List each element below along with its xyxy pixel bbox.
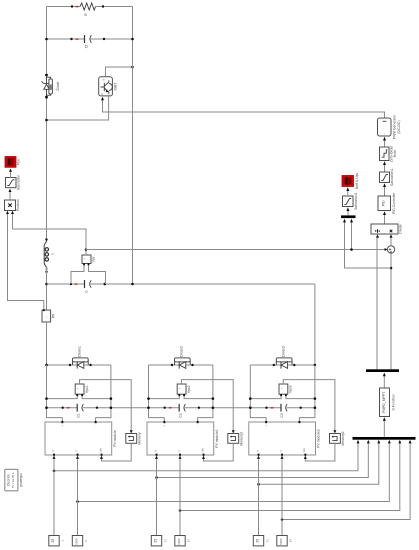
svg-text:Hold: Hold xyxy=(393,150,397,157)
wire Vpv branch to display mux input2 xyxy=(351,222,353,250)
svg-text:Uref & Upv: Uref & Upv xyxy=(355,172,359,189)
saturation block Saturation xyxy=(6,175,21,191)
wire Ipv signal to Product xyxy=(8,213,44,309)
svg-text:1000: 1000 xyxy=(177,538,181,545)
svg-text:1000: 1000 xyxy=(75,538,79,545)
svg-text:Ppv: Ppv xyxy=(17,159,21,165)
voltage measurement Vpv1 xyxy=(75,384,89,396)
wire group1 right rail to module input2 xyxy=(96,365,111,422)
svg-text:Cf: Cf xyxy=(85,45,89,48)
wire Vpv3 sense left xyxy=(250,396,281,398)
wire Vpv3 output to Memory2 xyxy=(283,380,335,431)
constant block 1000 g3 xyxy=(277,536,293,546)
node rail crossings on cap row xyxy=(147,406,150,409)
C3 branch red port tick xyxy=(271,407,274,408)
arrow mux in1 xyxy=(357,440,360,444)
wire Vpv2 output to Memory1 xyxy=(182,380,234,431)
node rail crossings on cap row xyxy=(249,406,252,409)
wire group1 left rail to module input1 xyxy=(47,365,63,422)
arrow into MPPT xyxy=(383,417,386,421)
node Cf right port xyxy=(103,38,105,40)
svg-text:C1: C1 xyxy=(76,413,80,417)
voltage measurement Vpv xyxy=(82,255,96,265)
arrow into module1 Ir xyxy=(155,456,158,459)
arrow mux in3 xyxy=(377,440,380,444)
capacitor C3 plates xyxy=(280,404,287,418)
arrow mux in4 xyxy=(388,440,391,444)
svg-text:PV module1: PV module1 xyxy=(215,429,219,448)
arrow into Memory1 xyxy=(232,430,235,433)
current measurement Ipv xyxy=(42,309,55,322)
wire Vpv1 output to Memory xyxy=(80,380,132,431)
node R left port xyxy=(71,5,73,7)
arrow into module1 T xyxy=(179,456,182,459)
wire Divide to PID xyxy=(384,214,386,224)
svg-text:Vpv2: Vpv2 xyxy=(187,385,191,393)
node below inductor xyxy=(45,271,47,273)
saturation block Saturation2 xyxy=(343,193,359,210)
node group3 right rail on diode row xyxy=(314,364,317,367)
S-function block POPD_MPPT xyxy=(380,388,396,417)
svg-text:PV module: PV module xyxy=(113,430,117,447)
voltage measurement Vpv3 xyxy=(279,384,293,396)
wire big mux to MPPT input xyxy=(383,420,385,437)
svg-text:Saturation1: Saturation1 xyxy=(390,169,394,186)
node sense rail joins xyxy=(147,397,150,400)
svg-text:Vpv3: Vpv3 xyxy=(289,385,293,393)
svg-text:Memory1: Memory1 xyxy=(240,431,244,445)
node T2 tap xyxy=(179,509,182,512)
constant block 25 xyxy=(49,536,65,546)
arrow into module2 Vav xyxy=(304,456,307,459)
wire Ir1 signal to mux in1 xyxy=(54,443,358,470)
capacitor C1 plates xyxy=(76,404,83,418)
node Cf rail / switch-node xyxy=(131,38,134,41)
wire left rail upper xyxy=(46,7,48,75)
capacitor Cf xyxy=(85,35,92,48)
arrow into Memory2 xyxy=(333,430,336,433)
svg-text:-: - xyxy=(299,425,300,428)
svg-text:Ir: Ir xyxy=(154,450,158,452)
node Ir2 tap xyxy=(155,476,158,479)
capacitor C2 plates xyxy=(178,404,185,418)
node group1 left rail on diode row xyxy=(45,364,48,367)
svg-text:Vav: Vav xyxy=(200,447,204,452)
C branch red port tick xyxy=(75,283,78,284)
svg-text:-: - xyxy=(88,260,89,263)
divide block xyxy=(371,224,402,234)
svg-text:IGBT: IGBT xyxy=(114,83,118,91)
svg-text:Divide: Divide xyxy=(398,224,402,234)
wire MPPT output to demux xyxy=(383,376,385,388)
memory block Memory xyxy=(126,432,142,445)
svg-text:›: › xyxy=(384,131,385,135)
wire Vpv signal branch to Product xyxy=(13,213,87,249)
arrow into module2 Ir xyxy=(257,456,260,459)
wire top rail right segment xyxy=(96,6,133,8)
arrow into display mux input2 xyxy=(350,219,353,223)
C1 branch red port tick xyxy=(67,407,70,408)
wire ZOH to PWM xyxy=(384,140,386,147)
sum block Add xyxy=(387,246,394,253)
wire group2 right rail to module input2 xyxy=(198,365,213,422)
wire Ir3 signal to mux in3 xyxy=(259,443,379,484)
product block Product xyxy=(5,199,21,211)
wire series cap row bus xyxy=(47,407,315,409)
svg-text:PID Controller: PID Controller xyxy=(392,192,396,214)
arrow into module Vav xyxy=(100,456,103,459)
arrow into module T xyxy=(76,456,79,459)
svg-text:Ipv: Ipv xyxy=(51,313,55,318)
node Vpv signal branch xyxy=(85,248,88,251)
wire left rail diode to emitter node xyxy=(46,97,48,241)
wire Memory1 output to module Vav input xyxy=(204,443,234,461)
demux bar MPPT outputs xyxy=(366,369,399,372)
wire Vpv sense right to PV+ rail xyxy=(89,265,106,284)
diode Diode3 (bypass) xyxy=(273,346,296,369)
node Ir3 tap xyxy=(257,483,260,486)
node T3 tap xyxy=(281,518,284,521)
PID controller block xyxy=(378,192,396,214)
wire Vpv3 sense right xyxy=(286,396,315,398)
svg-text:Diode3: Diode3 xyxy=(281,346,285,357)
arrow into display mux input1 xyxy=(343,219,346,223)
arrow into module Ir xyxy=(53,456,56,459)
arrow into module2 T xyxy=(281,456,284,459)
svg-text:Diode2: Diode2 xyxy=(180,346,184,357)
wire Uref vertical sum bottom to demux out2 xyxy=(390,253,392,369)
svg-text:Ts = 1e-05 s.: Ts = 1e-05 s. xyxy=(11,472,15,488)
svg-text:Vav: Vav xyxy=(98,447,102,452)
wire Saturation2 to scope xyxy=(347,190,349,196)
node sense rail joins xyxy=(45,397,48,400)
PV module block xyxy=(45,421,117,456)
arrow into scope Uref & Upv xyxy=(346,187,349,191)
scope display Uref & Upv (red) xyxy=(342,172,359,189)
wire Vpv2 sense right xyxy=(184,396,213,398)
arrow mux in2 xyxy=(367,440,370,444)
arrow into demux xyxy=(383,373,386,377)
wire PV+ rail xyxy=(47,284,315,365)
capacitor C xyxy=(85,280,92,293)
node switch-node vertical on PV+ rail xyxy=(131,283,134,286)
memory block Memory1 xyxy=(228,431,244,445)
node collector junction xyxy=(131,66,134,69)
PV module2 block xyxy=(249,421,321,456)
node T1 tap xyxy=(76,500,79,503)
wire Saturation1 to ZOH xyxy=(384,164,386,172)
wire group2 left rail to module input1 xyxy=(149,365,165,422)
svg-text:25: 25 xyxy=(51,539,55,543)
arrow mux in5 xyxy=(398,440,401,444)
arrow mux in6 xyxy=(409,440,412,444)
wire Vpv1 sense left xyxy=(47,396,78,398)
inductor L xyxy=(44,238,54,268)
wire top rail left segment xyxy=(47,6,81,8)
wire Memory output to module Vav input xyxy=(102,443,132,461)
arrow into Divide input 1 xyxy=(376,234,379,238)
arrow into Saturation xyxy=(9,189,12,192)
svg-text:Ir: Ir xyxy=(51,450,55,452)
svg-text:Vpv: Vpv xyxy=(92,256,96,262)
svg-text:Discrete: Discrete xyxy=(7,474,11,486)
svg-text:Memory: Memory xyxy=(138,432,142,445)
svg-text:-: - xyxy=(197,425,198,428)
node Vpv tap for display mux xyxy=(350,248,353,251)
node left rail / PV+ rail junction xyxy=(45,283,48,286)
node rail crossings on cap row xyxy=(45,406,48,409)
wire Ir2 signal to mux in2 xyxy=(157,443,369,477)
wire Vpv1 sense right xyxy=(82,396,111,398)
node C3 ports xyxy=(265,407,267,409)
arrow into PID xyxy=(383,211,386,215)
wire constant 25 to module Ir input xyxy=(53,459,55,535)
scope display Ppv (red) xyxy=(5,157,21,168)
wire T3 signal to mux in6 xyxy=(282,443,410,519)
svg-text:Memory2: Memory2 xyxy=(341,431,345,445)
wire switch-node vertical xyxy=(132,7,134,285)
svg-text:S-Function: S-Function xyxy=(392,394,396,411)
wire Vpv output port xyxy=(85,250,87,256)
Cf branch red port tick xyxy=(76,38,79,39)
arrow into Saturation1 xyxy=(383,183,386,187)
arrow into sum block xyxy=(385,248,388,251)
arrow into Divide input 2 xyxy=(390,234,393,238)
arrow into Ppv display xyxy=(9,169,12,172)
svg-text:Product: Product xyxy=(16,199,20,211)
wire left rail inductor to PV+ rail xyxy=(46,267,48,310)
constant block 25 g2 xyxy=(151,536,167,546)
powergui block xyxy=(5,469,23,491)
svg-text:25: 25 xyxy=(256,539,260,543)
wire Vpv sense left to PV+ rail xyxy=(71,265,84,284)
svg-text:1000: 1000 xyxy=(279,538,283,545)
svg-text:E: E xyxy=(108,91,110,95)
wire constant 1000 to module T input xyxy=(77,459,79,535)
wire T2 signal to mux in5 xyxy=(180,443,400,510)
diode Diode1 (bypass) xyxy=(69,346,92,369)
svg-text:Vav: Vav xyxy=(302,447,306,452)
wire group3 right rail to module input2 xyxy=(299,365,315,422)
wire mux to Saturation2 xyxy=(347,210,349,215)
wire Vpv signal to sum block xyxy=(86,249,385,251)
wire PID to Saturation1 xyxy=(384,186,386,196)
wire group3 left rail to module input1 xyxy=(250,365,266,422)
memory block Memory2 xyxy=(330,431,346,445)
arrow into Saturation2 xyxy=(346,207,349,211)
wire left rail through Ipv down to group1 xyxy=(46,322,48,365)
svg-text:Saturation: Saturation xyxy=(17,175,21,191)
C2 branch red port tick xyxy=(169,407,172,408)
wire sum output to Divide input2 xyxy=(390,238,392,246)
wire IGBT emitter to left rail xyxy=(47,96,109,120)
saturation block Saturation1 xyxy=(380,169,395,186)
wire diode3 row xyxy=(250,364,315,366)
wire Uref branch to display mux xyxy=(345,222,392,268)
arrow into Product left input xyxy=(6,211,9,214)
mux bar (Uref & Upv) xyxy=(341,215,356,218)
svg-text:-: - xyxy=(95,425,96,428)
wire IGBT gate from PWM generator xyxy=(103,100,385,119)
node C1 ports xyxy=(62,407,64,409)
arrow into ZOH xyxy=(383,161,386,165)
wire constant 25 g2 to module Ir input xyxy=(156,459,158,535)
wire Product output to Saturation xyxy=(9,191,11,200)
wire Memory2 output to module Vav input xyxy=(305,443,335,461)
constant block 1000 g2 xyxy=(175,536,191,546)
constant block 25 g3 xyxy=(253,536,269,546)
svg-text:Diode1: Diode1 xyxy=(78,346,82,357)
diode D (vertical, boost diode) xyxy=(42,74,60,98)
PWM Generator (DC-DC) xyxy=(378,114,401,139)
svg-text:Ir: Ir xyxy=(84,540,88,542)
big mux bar (6 inputs) xyxy=(353,437,416,440)
R branch red port tick xyxy=(76,6,79,7)
node C left port xyxy=(70,283,72,285)
arrow into PWM xyxy=(383,137,386,141)
svg-text:Diode: Diode xyxy=(56,81,60,90)
voltage measurement Vpv2 xyxy=(177,384,191,396)
svg-text:C2: C2 xyxy=(178,413,182,417)
node R right port xyxy=(102,5,104,7)
node C2 ports xyxy=(164,407,166,409)
svg-text:m: m xyxy=(103,79,105,82)
wire Cf rail xyxy=(47,38,133,40)
svg-text:powergui: powergui xyxy=(19,473,23,487)
node junction left rail / Cf rail xyxy=(45,38,48,41)
svg-text:PV module2: PV module2 xyxy=(317,429,321,448)
arrow into module1 Vav xyxy=(202,456,205,459)
wire diode1 row xyxy=(47,364,111,366)
wire IGBT collector to switch-node vertical xyxy=(106,67,133,77)
wire Vpv2 sense left xyxy=(149,396,180,398)
node Cf left port xyxy=(70,38,72,40)
IGBT U1 xyxy=(99,77,118,96)
arrow into Memory xyxy=(130,430,133,433)
svg-text:POPD_MPPT: POPD_MPPT xyxy=(382,392,386,413)
node sense rail joins xyxy=(249,397,252,400)
wire demux out1 to Divide input1 xyxy=(376,238,378,370)
node Uref branch xyxy=(390,267,393,270)
wire constant 1000 g2 to module T input xyxy=(179,459,181,535)
arrow into IGBT gate xyxy=(101,97,104,100)
node diode bottom port xyxy=(45,96,47,98)
resistor R xyxy=(80,3,96,16)
svg-text:25: 25 xyxy=(154,539,158,543)
diode Diode2 (bypass) xyxy=(171,346,194,369)
wire Saturation output to Ppv display xyxy=(10,171,12,178)
svg-text:Saturation2: Saturation2 xyxy=(354,193,358,210)
L branch red port tick xyxy=(46,267,48,270)
svg-text:Vpv1: Vpv1 xyxy=(85,385,89,393)
svg-text:(DC-DC): (DC-DC) xyxy=(397,120,401,133)
svg-text:L: L xyxy=(50,252,54,254)
PV module1 block xyxy=(147,421,219,456)
wire constant 25 g3 to module Ir input xyxy=(258,459,260,535)
wire constant 1000 g3 to module T input xyxy=(281,459,283,535)
wire T1 signal to mux in4 xyxy=(78,443,390,501)
constant block 1000 xyxy=(72,536,88,546)
svg-text:Ir: Ir xyxy=(256,450,260,452)
node C right port xyxy=(104,283,107,286)
node emitter / left rail junction xyxy=(45,119,48,122)
arrow into Product right input xyxy=(11,211,14,214)
svg-text:PID: PID xyxy=(382,200,386,206)
svg-text:C3: C3 xyxy=(280,413,284,417)
node Ir1 tap xyxy=(53,470,56,473)
wire diode2 row xyxy=(149,364,213,366)
zero-order hold block xyxy=(380,145,398,163)
